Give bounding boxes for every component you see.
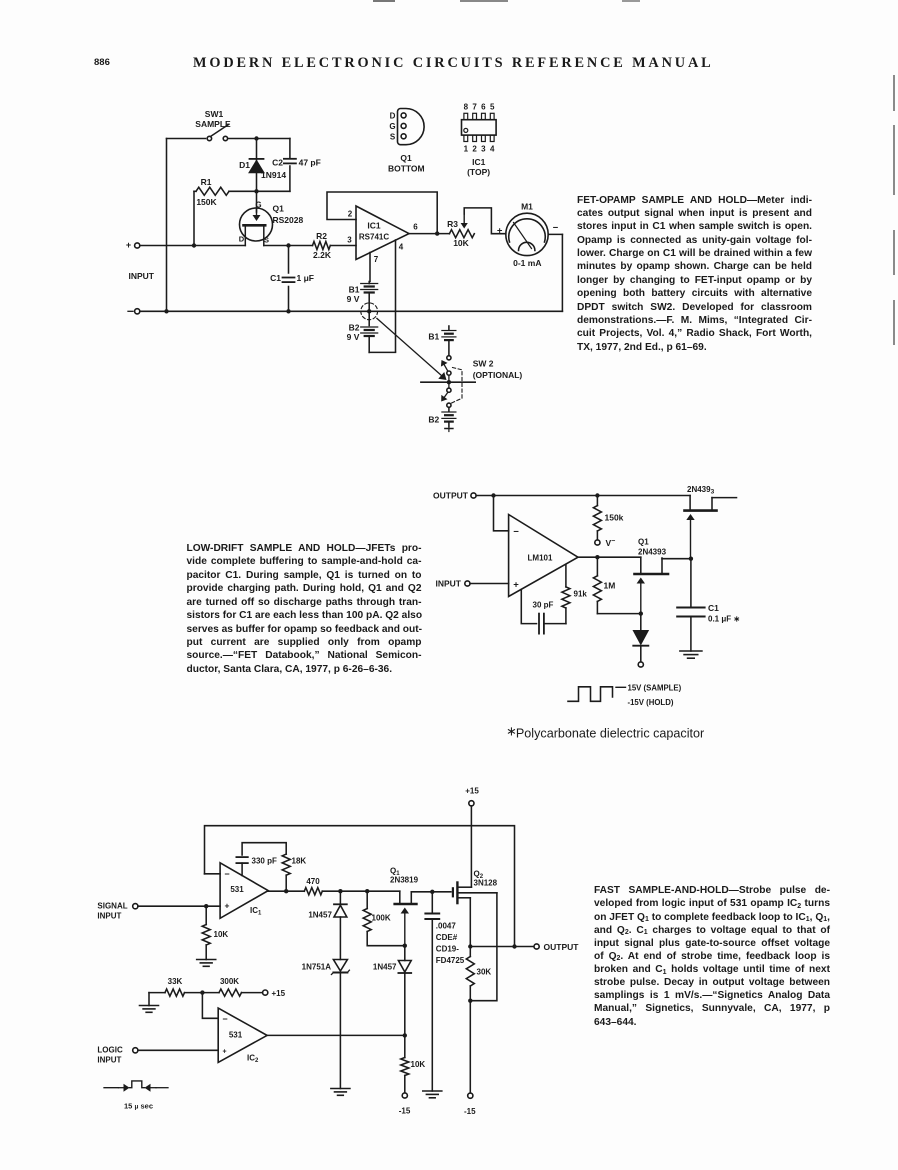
wire signal input [138, 905, 220, 907]
svg-text:0-1 mA: 0-1 mA [513, 258, 541, 268]
label RS2028 [273, 215, 304, 225]
node junction SW1 leg on - rail [164, 309, 168, 313]
svg-text:+: + [225, 901, 230, 911]
transistor Q2 3N128 [432, 883, 497, 1001]
svg-text:FD4725: FD4725 [436, 956, 465, 965]
label C1 [270, 273, 281, 283]
svg-text:8: 8 [464, 103, 469, 112]
label -15 right [464, 1107, 476, 1116]
svg-text:−: − [224, 869, 229, 879]
svg-text:SW 2: SW 2 [473, 358, 494, 368]
node junction Q1 gate [403, 944, 407, 948]
node junction 1M top [595, 555, 599, 559]
battery B1 alt for SW2 [442, 326, 456, 355]
label 2N3819 [390, 876, 419, 885]
wire output line [470, 946, 534, 948]
terminal +15 top [465, 787, 479, 806]
ground under zener [331, 1089, 350, 1096]
label Q2 [474, 870, 484, 881]
svg-text:1N914: 1N914 [261, 170, 286, 180]
node junction pin6/feedback [435, 231, 439, 235]
waveform strobe pulse [568, 687, 626, 702]
label minus [513, 526, 519, 537]
label V- [606, 538, 616, 548]
wire pin2 feedback loop [327, 192, 437, 234]
svg-text:4: 4 [490, 145, 495, 154]
label S pin [264, 236, 269, 245]
svg-text:5: 5 [490, 103, 495, 112]
pulse width symbol [104, 1081, 168, 1092]
svg-text:R3: R3 [447, 219, 458, 229]
label -15V HOLD [628, 698, 674, 707]
footnote polycarbonate [506, 724, 704, 741]
svg-text:470: 470 [306, 877, 320, 886]
label pin 4 [399, 243, 404, 252]
label B2 alt [428, 414, 439, 424]
node junction 30K bottom [468, 999, 472, 1003]
terminal -15 strobe [402, 1093, 407, 1098]
svg-text:(OPTIONAL): (OPTIONAL) [473, 370, 523, 380]
label 150k [605, 513, 624, 523]
node junction divider [200, 990, 204, 994]
svg-text:6: 6 [413, 223, 418, 232]
node junction IC2 out [403, 1033, 407, 1037]
svg-text:R2: R2 [316, 231, 327, 241]
capacitor 330 pF [236, 857, 247, 875]
labels pins 1234 [464, 145, 495, 154]
label LOGIC INPUT [97, 1046, 123, 1065]
svg-text:4: 4 [399, 243, 404, 252]
label R2 [316, 231, 327, 241]
node junction 100K top [365, 889, 369, 893]
svg-text:-15: -15 [464, 1107, 476, 1116]
wire SW1 left leg down to - rail [166, 139, 168, 312]
svg-text:−: − [553, 223, 559, 234]
svg-text:B2: B2 [349, 323, 360, 333]
label IC1 sub [250, 906, 262, 917]
svg-text:7: 7 [472, 103, 477, 112]
wire B2 bottom to pin4 [369, 351, 395, 353]
diode 1N751A zener [331, 960, 349, 1089]
meter M1 [506, 213, 548, 255]
transistor Q2 2N4393 top [685, 496, 737, 558]
battery B2 alt for SW2 [442, 407, 456, 431]
dashed gang coupling SW2 [451, 368, 463, 404]
svg-text:D: D [239, 235, 245, 244]
wire top rail from SW1 to C2 branch [167, 138, 290, 140]
terminal output [471, 493, 476, 498]
svg-text:3N128: 3N128 [474, 879, 498, 888]
transistor Q1 RS2028 [240, 208, 273, 246]
label SIGNAL INPUT [97, 902, 127, 921]
svg-text:S: S [264, 236, 269, 245]
label OPTIONAL [473, 370, 523, 380]
wire pin4 down [395, 240, 397, 352]
svg-text:SIGNAL: SIGNAL [97, 902, 127, 911]
wire pin7 down to B1 [369, 253, 371, 282]
svg-text:15V (SAMPLE): 15V (SAMPLE) [628, 683, 682, 692]
label pin 3 [347, 236, 352, 245]
svg-text:CDE#: CDE# [436, 933, 458, 942]
svg-text:−: − [222, 1014, 227, 1024]
wire arrow to SW2 [377, 318, 447, 380]
wire feedback to inverting input [494, 496, 509, 531]
wire R1 left leg down to + rail [193, 191, 195, 245]
diode strobe [633, 614, 648, 662]
svg-text:RS741C: RS741C [359, 233, 389, 242]
wire feedback into minus [205, 873, 221, 875]
label 470 [306, 877, 320, 886]
svg-text:33K: 33K [168, 977, 183, 986]
wire + input rail [140, 245, 246, 247]
svg-text:Q1: Q1 [400, 153, 412, 163]
label 1N457 first [308, 911, 332, 920]
wire from Q1 source to R2 [264, 245, 313, 247]
label pin 6 [413, 223, 418, 232]
svg-text:6: 6 [481, 103, 486, 112]
label 2N4393 top [687, 485, 715, 496]
resistor 18K [282, 854, 290, 891]
svg-text:150k: 150k [605, 513, 624, 523]
svg-text:2N3819: 2N3819 [390, 876, 419, 885]
wire input to + [470, 583, 509, 585]
resistor 100K [363, 891, 405, 946]
label 1M [604, 581, 616, 591]
svg-text:OUTPUT: OUTPUT [544, 942, 580, 952]
diode D1 1N914 [250, 139, 264, 192]
svg-text:BOTTOM: BOTTOM [388, 164, 425, 174]
node junction 18K bottom [284, 889, 288, 893]
wire SW2 center bar [421, 375, 475, 388]
label IC2 sub [247, 1054, 259, 1065]
switch SW2 upper pole [441, 356, 451, 376]
svg-text:+: + [126, 240, 131, 250]
label B1 alt [428, 332, 439, 342]
wire divider to IC2 minus [202, 993, 218, 1019]
node junction C1 top mid [689, 557, 693, 561]
label plus IC1 [225, 901, 230, 911]
svg-text:V−: V− [606, 538, 616, 548]
label SW 2 [473, 358, 494, 368]
svg-text:LOGIC: LOGIC [97, 1046, 123, 1055]
svg-text:150K: 150K [196, 197, 217, 207]
label 10K [453, 238, 469, 248]
svg-text:300K: 300K [220, 977, 239, 986]
svg-text:+: + [222, 1049, 226, 1056]
wire gate lead into Q1 [253, 191, 261, 221]
svg-text:−: − [513, 526, 519, 537]
resistor 150k [593, 496, 601, 540]
label D [390, 111, 396, 120]
battery B2 9V [361, 311, 378, 352]
ground under C1 [680, 651, 702, 658]
transistor Q1 2N3819 [395, 891, 433, 944]
label 30 pF [533, 601, 554, 610]
svg-text:2: 2 [348, 210, 353, 219]
ground under 10K [197, 960, 216, 967]
label 15V SAMPLE [628, 683, 682, 692]
wire opamp out to Q1 drain [578, 556, 641, 558]
resistor 470 [304, 888, 322, 895]
node junction feedback right [512, 944, 516, 948]
label 100K [372, 914, 391, 923]
label 531 IC1 [230, 885, 244, 894]
svg-text:.0047: .0047 [436, 922, 457, 931]
svg-text:B1: B1 [349, 285, 360, 295]
wire inner loop top [242, 843, 286, 855]
pinout Q1 bottom view [398, 109, 425, 145]
label IC1 [367, 221, 381, 231]
label SW1 SAMPLE [195, 109, 231, 129]
label C1 mid [708, 603, 719, 613]
label LM101 [528, 554, 553, 563]
label .0047 [436, 922, 465, 966]
label 3N128 [474, 879, 498, 888]
svg-text:531: 531 [229, 1031, 243, 1040]
svg-text:IC2: IC2 [247, 1054, 259, 1065]
wire pin6 output [409, 233, 449, 235]
node junction feedback [491, 493, 495, 497]
label D pin [239, 235, 245, 244]
wire C1 branch [288, 246, 290, 312]
svg-text:S: S [390, 132, 396, 141]
label INPUT [436, 579, 462, 589]
terminal +15 divider [263, 990, 268, 995]
label Q1 bot [390, 867, 400, 878]
switch SW2 lower pole [441, 388, 451, 407]
wire 470 to Q1 drain [322, 890, 400, 892]
label Q1 bottom [388, 153, 425, 174]
svg-text:+15: +15 [465, 787, 479, 796]
svg-text:1M: 1M [604, 581, 616, 591]
label INPUT [129, 271, 155, 281]
svg-text:100K: 100K [372, 914, 391, 923]
svg-text:47 pF: 47 pF [299, 158, 321, 168]
svg-text:2N4393: 2N4393 [638, 548, 667, 557]
svg-text:2N4393: 2N4393 [687, 485, 715, 496]
label Q1 mid [638, 538, 649, 547]
label 10K signal [214, 930, 229, 939]
op-amp IC2 531 [218, 1008, 267, 1062]
svg-text:Q1: Q1 [273, 204, 285, 214]
label B1 [347, 285, 360, 305]
node junction R1 leg on + rail [192, 243, 196, 247]
svg-text:10K: 10K [214, 930, 229, 939]
label 47 pF [299, 158, 321, 168]
svg-text:3: 3 [347, 236, 352, 245]
op-amp IC1 RS741C [356, 206, 409, 260]
wire 30pF loop from plus input [521, 590, 536, 624]
svg-text:1N457: 1N457 [373, 963, 397, 972]
wire IC1 feedback top [205, 826, 515, 947]
capacitor .0047 [425, 892, 439, 1091]
svg-text:C1: C1 [270, 273, 281, 283]
svg-text:1: 1 [464, 145, 469, 154]
svg-text:∗Polycarbonate dielectric capa: ∗Polycarbonate dielectric capacitor [506, 724, 704, 741]
resistor 10K strobe [401, 1058, 409, 1093]
node junction 150k top [595, 493, 599, 497]
label plus IC2 [222, 1049, 226, 1056]
label D1 [239, 160, 250, 170]
svg-text:+: + [497, 226, 503, 237]
svg-text:7: 7 [374, 255, 379, 264]
svg-text:+: + [513, 579, 519, 590]
svg-text:INPUT: INPUT [97, 912, 121, 921]
svg-text:(TOP): (TOP) [467, 167, 490, 177]
svg-text:RS2028: RS2028 [273, 215, 304, 225]
label G [255, 201, 261, 210]
svg-text:1N457: 1N457 [308, 911, 332, 920]
svg-text:IC1: IC1 [367, 221, 381, 231]
label OUTPUT [433, 491, 469, 501]
op-amp IC1 531 [220, 863, 268, 919]
svg-text:SW1: SW1 [205, 109, 224, 119]
svg-text:Q1: Q1 [638, 538, 649, 547]
switch SW1 [207, 125, 228, 141]
svg-text:330 pF: 330 pF [252, 857, 277, 866]
svg-text:INPUT: INPUT [436, 579, 462, 589]
label R1 [201, 177, 212, 187]
label 1N457 second [373, 963, 397, 972]
terminal logic input [133, 1048, 138, 1053]
label S [390, 132, 396, 141]
svg-text:G: G [389, 122, 395, 131]
wire 300K to +15 [242, 992, 263, 994]
svg-text:SAMPLE: SAMPLE [195, 119, 231, 129]
pinout IC1 top view [462, 113, 497, 141]
label -15 strobe [399, 1107, 411, 1116]
label minus IC1 [224, 869, 229, 879]
op-amp LM101 [509, 515, 578, 597]
wire IC1 out [268, 890, 304, 892]
svg-text:-15: -15 [399, 1107, 411, 1116]
wire 33K row [149, 992, 165, 994]
diode 1N457 first [334, 891, 347, 959]
svg-text:D1: D1 [239, 160, 250, 170]
svg-text:3: 3 [481, 145, 486, 154]
svg-text:C2: C2 [272, 158, 283, 168]
svg-text:15 μ sec: 15 μ sec [124, 1102, 153, 1111]
label IC1 top [467, 157, 490, 177]
svg-text:+15: +15 [272, 989, 286, 998]
label Q1 [273, 204, 285, 214]
label RS741C [359, 233, 389, 242]
label 2.2K [313, 250, 332, 260]
capacitor C2 [284, 159, 296, 164]
svg-text:30K: 30K [477, 968, 492, 977]
svg-text:0.1 μF ∗: 0.1 μF ∗ [708, 615, 740, 624]
label +15 divider [272, 989, 286, 998]
svg-text:-15V (HOLD): -15V (HOLD) [628, 698, 674, 707]
svg-text:LM101: LM101 [528, 554, 553, 563]
capacitor C1 1uF [283, 278, 295, 283]
svg-text:INPUT: INPUT [129, 271, 155, 281]
svg-text:531: 531 [230, 885, 244, 894]
wire R2 to pin3 [330, 245, 356, 247]
label B2 [347, 323, 360, 343]
terminal signal input [133, 904, 138, 909]
label 0-1 mA [513, 258, 541, 268]
node junction gate/1M [639, 611, 643, 615]
terminal input [465, 581, 470, 586]
svg-text:R1: R1 [201, 177, 212, 187]
label 531 IC2 [229, 1031, 243, 1040]
wire R3 wiper to meter [464, 208, 506, 234]
node junction cap top [430, 890, 434, 894]
node junction diode chain top [338, 889, 342, 893]
resistor 33K [165, 989, 185, 996]
label M1 [521, 202, 533, 212]
label 33K [168, 977, 183, 986]
terminal V- [595, 540, 600, 545]
svg-text:OUTPUT: OUTPUT [433, 491, 469, 501]
terminal -15 right [468, 1093, 473, 1098]
node junction 10K signal [204, 904, 208, 908]
wire 30pF to 91k [544, 623, 566, 625]
label 18K [292, 857, 307, 866]
svg-text:CD19-: CD19- [436, 945, 459, 954]
resistor 30K [466, 947, 474, 1094]
label 10K strobe [411, 1060, 426, 1069]
labels pins 8765 [464, 103, 495, 112]
label meter plus [497, 226, 503, 237]
svg-text:M1: M1 [521, 202, 533, 212]
svg-text:2: 2 [472, 145, 477, 154]
terminal + input [126, 240, 140, 250]
svg-text:INPUT: INPUT [97, 1056, 121, 1065]
label plus [513, 579, 519, 590]
svg-text:91k: 91k [574, 590, 588, 599]
svg-text:1N751A: 1N751A [302, 963, 332, 972]
ground under .0047 [423, 1091, 442, 1098]
svg-text:9 V: 9 V [347, 294, 360, 304]
svg-text:B2: B2 [428, 414, 439, 424]
svg-text:IC1: IC1 [472, 157, 486, 167]
transistor Q1 2N4393 [635, 557, 691, 612]
wire C2 branch down [289, 139, 291, 192]
label G [389, 122, 395, 131]
resistor 300K [219, 989, 242, 996]
label OUTPUT bot [544, 942, 580, 952]
label 330 pF [252, 857, 277, 866]
label pin 2 [348, 210, 353, 219]
terminal OUTPUT [534, 944, 539, 949]
resistor R2 2.2K [313, 242, 331, 250]
label 300K [220, 977, 239, 986]
svg-text:2.2K: 2.2K [313, 250, 332, 260]
label 1 uF [297, 273, 314, 283]
svg-text:D: D [390, 111, 396, 120]
battery B1 9V [361, 282, 378, 312]
wire 33K to 300K [185, 992, 220, 994]
wire +15 down to Q2 drain [470, 806, 472, 887]
ground 33K [140, 993, 159, 1013]
label meter minus [553, 223, 559, 234]
svg-text:30 pF: 30 pF [533, 601, 554, 610]
node junction output [468, 944, 472, 948]
label minus IC2 [222, 1014, 227, 1024]
capacitor C1 mid [677, 559, 704, 651]
label R3 [447, 219, 458, 229]
resistor 91k [562, 564, 570, 623]
wire meter to - rail [548, 234, 562, 311]
svg-text:10K: 10K [411, 1060, 426, 1069]
terminal - input [128, 309, 140, 314]
wire logic input [138, 1049, 218, 1051]
wire output top rail [476, 495, 690, 497]
node junction C1 top [286, 243, 290, 247]
wire IC2 output [267, 1034, 405, 1036]
